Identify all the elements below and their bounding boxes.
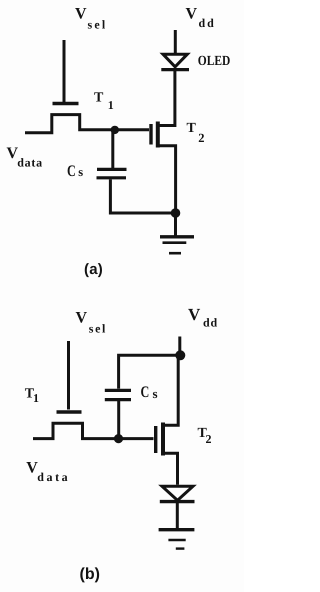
svg-text:(a): (a) (84, 261, 103, 278)
svg-text:V: V (75, 6, 87, 23)
svg-text:s: s (78, 165, 83, 179)
svg-text:data: data (17, 156, 42, 170)
svg-text:T: T (94, 91, 104, 106)
svg-text:V: V (186, 6, 198, 23)
svg-text:1: 1 (108, 98, 114, 112)
svg-text:V: V (76, 310, 88, 327)
svg-text:V: V (188, 305, 201, 324)
svg-text:sel: sel (88, 18, 108, 32)
svg-text:(b): (b) (80, 566, 100, 583)
svg-text:dd: dd (199, 16, 216, 30)
svg-text:1: 1 (33, 391, 39, 405)
svg-text:2: 2 (206, 432, 212, 446)
svg-text:T: T (187, 121, 197, 136)
svg-text:dd: dd (203, 316, 218, 330)
svg-text:C: C (67, 163, 76, 180)
svg-text:2: 2 (198, 131, 204, 145)
svg-text:data: data (37, 470, 70, 484)
svg-text:C: C (141, 384, 150, 401)
svg-text:sel: sel (89, 322, 107, 336)
svg-text:OLED: OLED (198, 54, 231, 69)
svg-text:s: s (153, 386, 158, 401)
